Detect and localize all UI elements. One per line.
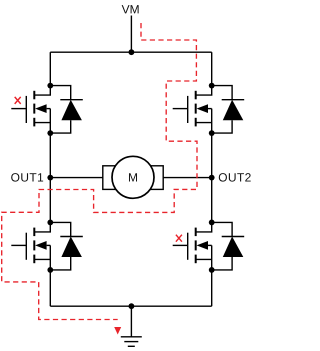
wire ground stem	[130, 306, 132, 337]
net label VM	[122, 5, 139, 13]
wire left lower (OUT1 to Q3)	[49, 178, 51, 223]
node Q2 drain	[209, 83, 215, 89]
wire right mid (Q2 source to OUT2)	[211, 133, 213, 178]
wire right rail upper	[211, 52, 213, 85]
motor M body	[112, 156, 154, 198]
node Q2 source	[209, 130, 215, 136]
body diode D3	[50, 222, 83, 270]
motor label M	[129, 173, 137, 181]
X marker on Q4 gate	[176, 235, 182, 242]
ground	[121, 337, 142, 347]
net label OUT2	[219, 173, 251, 182]
wire left bottom (Q3 to ground rail)	[49, 270, 51, 306]
node VM junction	[129, 49, 135, 55]
node Q3 source	[47, 267, 53, 273]
body diode D2	[212, 86, 245, 134]
wire motor to OUT2	[163, 177, 212, 179]
node Q3 drain	[47, 220, 53, 226]
node Q1 source	[47, 130, 53, 136]
node OUT1	[47, 175, 53, 181]
wire right lower (OUT2 to Q4)	[211, 178, 213, 223]
node Q4 drain	[209, 220, 215, 226]
motor M left brush	[103, 166, 116, 190]
current path arrowhead	[114, 327, 121, 335]
X marker on Q1 gate	[15, 97, 21, 104]
wire VM stem	[130, 16, 132, 53]
transistor Q3 (low-side left MOSFET)	[11, 222, 50, 270]
transistor Q4 (low-side right MOSFET)	[173, 222, 212, 270]
wire bottom rail	[50, 305, 211, 307]
net label OUT1	[11, 173, 43, 182]
transistor Q2 (high-side right MOSFET)	[173, 86, 212, 134]
transistor Q1 (high-side left MOSFET)	[11, 86, 50, 134]
node Q1 drain	[47, 83, 53, 89]
wire top rail	[50, 51, 211, 53]
motor M right brush	[151, 166, 164, 190]
wire right bottom (Q4 to ground rail)	[211, 270, 213, 306]
wire left mid (Q1 source to OUT1)	[49, 133, 51, 178]
node Q4 source	[209, 267, 215, 273]
node ground junction	[129, 303, 135, 309]
wire left rail upper	[49, 52, 51, 85]
wire OUT1 to motor	[50, 177, 103, 179]
current path (red dashed)	[2, 23, 197, 320]
body diode D1	[50, 86, 83, 134]
body diode D4	[212, 222, 245, 270]
node OUT2	[209, 175, 215, 181]
